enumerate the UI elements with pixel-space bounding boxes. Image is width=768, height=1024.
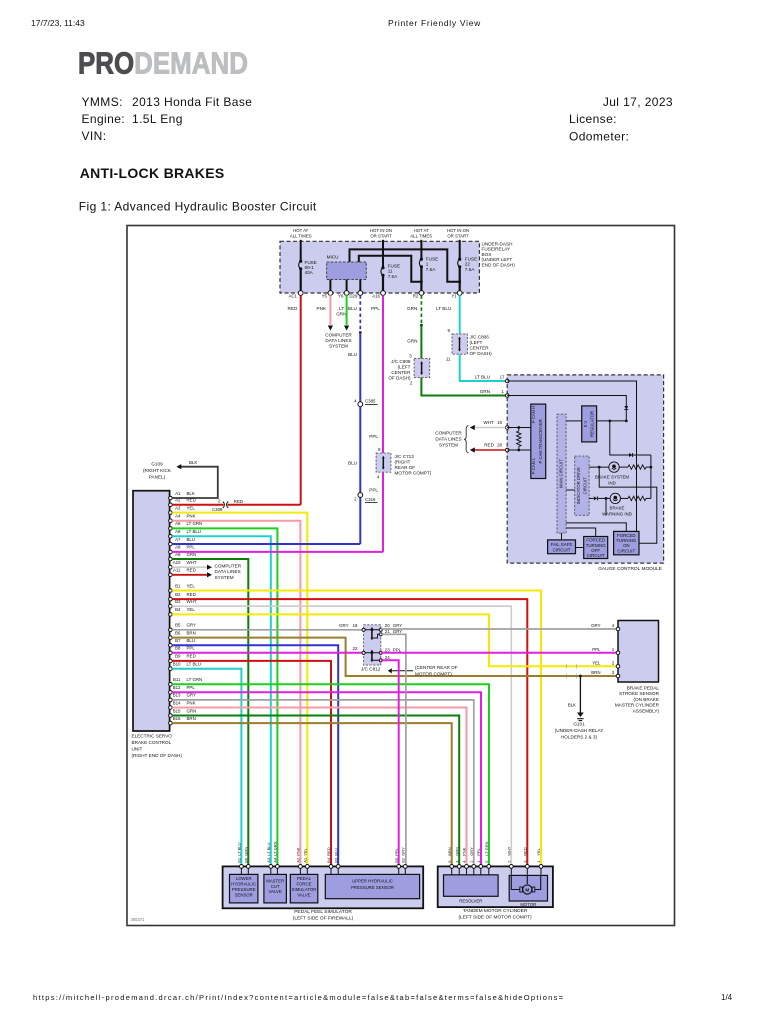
tandem motor cylinder pin 2 GRY xyxy=(469,847,476,875)
svg-text:A7: A7 xyxy=(175,537,181,542)
svg-text:C316: C316 xyxy=(365,497,376,502)
wire PPL B12 to resolver pin 1 xyxy=(172,692,481,866)
unit pin B9 RED xyxy=(169,654,196,663)
svg-text:(CENTER REAR OF: (CENTER REAR OF xyxy=(415,665,458,670)
svg-text:PRESSURE: PRESSURE xyxy=(232,887,256,892)
wire LT BLU from J/C C806 to gauge control module pin 17 xyxy=(460,354,508,381)
svg-text:RED: RED xyxy=(523,847,528,856)
svg-text:HYDRAULIC: HYDRAULIC xyxy=(231,882,256,887)
svg-text:YEL: YEL xyxy=(187,583,196,588)
svg-text:HOLDERS 2 & 3): HOLDERS 2 & 3) xyxy=(561,734,598,739)
svg-text:OR START: OR START xyxy=(447,233,469,238)
svg-text:B5: B5 xyxy=(175,623,181,628)
svg-text:UPPER HYDRAULIC: UPPER HYDRAULIC xyxy=(352,879,393,884)
junction connector J/C C806 xyxy=(446,328,492,362)
pedal force simulator valve block xyxy=(290,874,318,903)
svg-text:B5: B5 xyxy=(394,857,399,863)
gauge module pin 28 xyxy=(484,443,509,452)
unit pin B6 BRN xyxy=(169,630,196,639)
forced turning on circuit block xyxy=(614,531,639,554)
svg-text:FAIL SAFE: FAIL SAFE xyxy=(551,542,573,547)
svg-text:RED: RED xyxy=(187,654,196,659)
power feed HOT AT ALL TIMES (R2) xyxy=(410,228,432,258)
junction connector J/C C812 xyxy=(339,623,402,671)
svg-text:(RIGHT KICK: (RIGHT KICK xyxy=(143,468,172,473)
svg-text:BLU: BLU xyxy=(187,537,196,542)
svg-text:4: 4 xyxy=(354,399,357,404)
module internal wire pin17 to right bus xyxy=(507,381,636,531)
lower hydraulic pressure sensor block xyxy=(230,874,258,903)
svg-text:HOT IN ON: HOT IN ON xyxy=(370,228,392,233)
gauge module pin 19 xyxy=(483,420,509,429)
svg-text:1: 1 xyxy=(502,389,505,394)
svg-text:B14: B14 xyxy=(173,700,181,705)
svg-text:PPL: PPL xyxy=(187,646,196,651)
svg-text:MASTER: MASTER xyxy=(266,878,284,883)
wire WHT A10 to computer data lines arrow xyxy=(172,565,212,570)
svg-text:A16: A16 xyxy=(372,294,380,299)
wire PPL B8 to J/C C812 pin 22 xyxy=(172,652,363,654)
unit pin B12 PPL xyxy=(169,685,196,694)
svg-text:9: 9 xyxy=(448,328,451,333)
brake pedal stroke sensor box xyxy=(618,621,659,683)
svg-text:GRY: GRY xyxy=(393,623,403,628)
under-dash fuse/relay box xyxy=(280,241,479,293)
svg-text:INDICATOR DRIVE: INDICATOR DRIVE xyxy=(576,467,581,504)
svg-text:22: 22 xyxy=(353,646,358,651)
svg-text:SYSTEM: SYSTEM xyxy=(329,344,348,349)
svg-text:A1: A1 xyxy=(175,491,181,496)
junction connector J/C C713 xyxy=(376,447,432,480)
svg-text:BLU: BLU xyxy=(348,461,357,466)
svg-text:CENTER: CENTER xyxy=(470,346,490,351)
terminal Y5 xyxy=(322,291,333,299)
svg-text:7.5A: 7.5A xyxy=(426,267,436,272)
svg-text:B2: B2 xyxy=(401,857,406,863)
wire RED A2 with inline connector C306 xyxy=(172,499,301,513)
svg-text:1/4: 1/4 xyxy=(721,993,733,1002)
svg-text:23: 23 xyxy=(385,647,390,652)
wire GRY C812 pin 20 to stroke sensor pin 4 xyxy=(381,628,618,630)
wire PPL from A16 down to J/C C713 xyxy=(369,295,383,453)
svg-text:PPL: PPL xyxy=(592,647,601,652)
svg-text:PNK: PNK xyxy=(317,306,327,311)
wire GRN from splice to J/C C808 xyxy=(407,325,421,358)
svg-text:3: 3 xyxy=(409,354,412,359)
svg-text:LT GRN: LT GRN xyxy=(187,521,203,526)
svg-text:Y6: Y6 xyxy=(338,294,344,299)
svg-text:PNK: PNK xyxy=(187,700,196,705)
svg-text:CIRCUIT: CIRCUIT xyxy=(617,548,635,553)
wire BLU dashed from D29 xyxy=(348,295,362,334)
svg-text:28: 28 xyxy=(497,443,502,448)
svg-text:UNIT: UNIT xyxy=(132,747,143,752)
pedal feel simulator pin A1 YEL xyxy=(303,847,310,874)
svg-text:G101: G101 xyxy=(573,721,585,726)
pedal feel simulator pin A2 PNK xyxy=(296,847,303,874)
svg-text:ALL TIMES: ALL TIMES xyxy=(410,233,432,238)
wire LT BLU from Y1 down to J/C C806 xyxy=(436,295,460,334)
svg-text:WHT: WHT xyxy=(483,420,494,425)
gauge module pin 17 xyxy=(505,379,509,383)
svg-text:CIRCUIT: CIRCUIT xyxy=(587,553,605,558)
MICU output stubs to terminals Y5 Y6 D29 xyxy=(330,280,360,294)
svg-text:GRN: GRN xyxy=(454,847,459,856)
footer url xyxy=(33,993,564,1002)
ground G101 symbol xyxy=(577,713,584,721)
pedal feel simulator pin B4 RED xyxy=(326,847,333,874)
svg-text:B1: B1 xyxy=(175,583,181,588)
svg-text:VALVE: VALVE xyxy=(297,892,310,897)
svg-text:PEDAL: PEDAL xyxy=(297,876,312,881)
wire GRN A9 down to pedal feel simulator B6 xyxy=(172,559,248,866)
computer data lines system label (top) xyxy=(325,333,352,349)
unit pin A9 GRN xyxy=(169,552,197,561)
diagram id number xyxy=(131,917,146,922)
module internal wire pin1 with diode xyxy=(507,396,628,423)
master cut valve block xyxy=(264,874,287,903)
gauge control module box xyxy=(507,375,663,572)
unit pin B13 GRY xyxy=(169,693,196,702)
unit pin B15 GRN xyxy=(169,708,197,717)
svg-text:(RIGHT END OF DASH): (RIGHT END OF DASH) xyxy=(132,753,183,758)
wire PPL C812 pin 23 to stroke sensor pin 1 xyxy=(381,652,618,654)
svg-text:PPL: PPL xyxy=(394,847,399,855)
svg-text:GAUGE CONTROL MODULE: GAUGE CONTROL MODULE xyxy=(598,566,662,572)
svg-text:BRAKE SYSTEM: BRAKE SYSTEM xyxy=(595,474,630,479)
svg-text:PPL: PPL xyxy=(371,306,380,311)
unit pin B11 LT GRN xyxy=(169,677,203,686)
tandem motor cylinder pin 6 BRN xyxy=(447,847,454,875)
wire YEL B1 to motor pin 1 xyxy=(172,591,541,867)
fuse 11 7.5A xyxy=(381,264,400,294)
svg-text:BLK: BLK xyxy=(187,491,195,496)
label brake system ind xyxy=(595,474,630,485)
svg-text:GRY: GRY xyxy=(339,623,349,628)
svg-text:YMMS:: YMMS: xyxy=(82,95,123,109)
module wire from system ind junction to forced turning on circuit xyxy=(599,467,657,543)
label brake warning ind xyxy=(602,506,632,517)
svg-text:BLK: BLK xyxy=(568,703,576,708)
wire GRN from J/C C808 to gauge control module pin 1 xyxy=(421,378,507,396)
power feed HOT IN ON OR START (A16) xyxy=(370,228,392,267)
svg-text:LT BLU: LT BLU xyxy=(237,842,242,855)
svg-text:MAIN CIRCUIT: MAIN CIRCUIT xyxy=(558,459,563,488)
wire RED A11 to computer data lines arrow xyxy=(172,572,212,577)
svg-text:A6: A6 xyxy=(175,529,181,534)
ground G109 label xyxy=(143,461,172,479)
svg-text:A10: A10 xyxy=(173,560,181,565)
svg-text:YEL: YEL xyxy=(187,607,196,612)
svg-text:A4: A4 xyxy=(175,514,181,519)
wire BLU from splice to connector C385 xyxy=(348,333,360,403)
fuse 60-1 40A xyxy=(299,260,317,293)
svg-text:BLK: BLK xyxy=(189,460,197,465)
svg-text:RED: RED xyxy=(326,847,331,856)
svg-text:GRY: GRY xyxy=(187,623,197,628)
svg-text:17/7/23, 11:43: 17/7/23, 11:43 xyxy=(31,18,85,28)
svg-text:J/C C808: J/C C808 xyxy=(391,359,411,364)
module wire down to diode row xyxy=(610,421,651,457)
label pedal feel simulator xyxy=(293,909,354,921)
module wire main circuit to fail safe xyxy=(561,533,563,540)
svg-text:7.5A: 7.5A xyxy=(465,267,475,272)
svg-text:OF DASH): OF DASH) xyxy=(470,351,493,356)
svg-text:MOTOR COMPT): MOTOR COMPT) xyxy=(395,471,432,476)
indicator drive circuit block xyxy=(575,456,589,515)
svg-text:RED: RED xyxy=(187,592,196,597)
power feed HOT IN ON OR START (Y1) xyxy=(447,228,469,258)
unit pin A2 RED xyxy=(169,498,196,507)
fail safe circuit block xyxy=(548,540,576,554)
wire YEL B4 to brake pedal stroke sensor pin 2 xyxy=(172,614,618,666)
svg-text:GRY: GRY xyxy=(187,693,197,698)
svg-text:GRY: GRY xyxy=(469,847,474,856)
ProDemand logo xyxy=(78,45,248,79)
svg-text:WHT: WHT xyxy=(187,560,197,565)
pedal feel simulator box xyxy=(223,866,424,908)
fuse 1 7.5A xyxy=(419,257,438,294)
footer page number xyxy=(721,993,733,1002)
svg-text:Y5: Y5 xyxy=(322,294,328,299)
tandem motor cylinder pin 5 LT GRN xyxy=(484,841,491,874)
svg-text:PPL: PPL xyxy=(187,545,196,550)
svg-text:VALVE: VALVE xyxy=(269,889,282,894)
stroke sensor pin 2 YEL xyxy=(592,661,620,669)
svg-text:BRN: BRN xyxy=(187,630,196,635)
svg-text:B10: B10 xyxy=(173,662,181,667)
svg-text:BRAKE: BRAKE xyxy=(610,506,625,511)
pedal feel simulator pin B5 PPL xyxy=(394,847,401,874)
svg-text:LT GRN: LT GRN xyxy=(484,841,489,855)
unit pin B5 GRY xyxy=(169,623,196,632)
svg-text:SIMULATOR: SIMULATOR xyxy=(292,887,317,892)
svg-text:RESOLVER: RESOLVER xyxy=(459,898,482,903)
svg-text:J/C C812: J/C C812 xyxy=(361,666,381,671)
svg-text:P CAN H: P CAN H xyxy=(531,406,536,423)
wire GRY C812 pin 21 to pedal feel simulator B2 xyxy=(381,634,406,866)
svg-text:B9: B9 xyxy=(175,654,181,659)
svg-text:ASSEMBLY): ASSEMBLY) xyxy=(633,709,660,714)
svg-text:B1: B1 xyxy=(237,857,242,863)
svg-text:BLU: BLU xyxy=(348,352,357,357)
wire PPL A8 horizontal to riser xyxy=(172,551,383,553)
terminal A16 xyxy=(372,291,385,299)
svg-text:BLU: BLU xyxy=(187,638,196,643)
motor block xyxy=(509,875,547,906)
svg-text:IND: IND xyxy=(608,480,616,485)
svg-text:(LEFT SIDE OF FIREWALL): (LEFT SIDE OF FIREWALL) xyxy=(293,916,354,922)
diagram border frame xyxy=(127,226,675,926)
svg-text:License:: License: xyxy=(569,112,617,126)
svg-text:HOT AT: HOT AT xyxy=(414,228,429,233)
module wire main circuit to forced turning off xyxy=(566,528,596,537)
unit pin A5 LT GRN xyxy=(169,521,203,530)
wire GRN B15 to resolver pin 3 xyxy=(172,716,459,867)
svg-text:DATA LINES: DATA LINES xyxy=(215,569,241,574)
svg-text:CENTER: CENTER xyxy=(391,370,411,375)
svg-text:MASTER CYLINDER: MASTER CYLINDER xyxy=(615,703,660,708)
wire RED from AC1 down to A2 connector xyxy=(288,295,301,505)
svg-text:RED: RED xyxy=(187,568,196,573)
svg-text:24: 24 xyxy=(385,655,390,660)
svg-text:B3: B3 xyxy=(333,857,338,863)
svg-text:B2: B2 xyxy=(175,592,181,597)
tandem motor cylinder pin 3 GRN xyxy=(454,847,461,875)
svg-text:1.5L Eng: 1.5L Eng xyxy=(132,112,183,126)
svg-text:(UNDER-DASH RELAY: (UNDER-DASH RELAY xyxy=(555,728,604,733)
svg-text:2013 Honda Fit Base: 2013 Honda Fit Base xyxy=(132,95,252,109)
svg-text:5 V: 5 V xyxy=(583,421,588,428)
unit pin B14 PNK xyxy=(169,700,196,709)
svg-text:17: 17 xyxy=(500,375,505,380)
unit pin B4 YEL xyxy=(169,607,196,616)
unit pin A1 BLK xyxy=(169,491,195,500)
svg-text:COMPUTER: COMPUTER xyxy=(325,333,352,338)
svg-text:GRY: GRY xyxy=(591,623,601,628)
svg-text:Fig 1: Advanced Hydraulic Boos: Fig 1: Advanced Hydraulic Booster Circui… xyxy=(79,200,317,214)
wire BRN B6 to brake pedal stroke sensor pin 3 xyxy=(172,638,618,676)
svg-text:2: 2 xyxy=(612,661,615,666)
svg-text:PPL: PPL xyxy=(393,647,402,652)
svg-text:Engine:: Engine: xyxy=(82,112,126,126)
svg-text:WHT: WHT xyxy=(507,846,512,856)
unit pin B7 BLU xyxy=(169,638,195,647)
label center rear of motor compt with arrow xyxy=(388,665,458,677)
svg-text:M: M xyxy=(525,887,529,892)
svg-text:COMPUTER: COMPUTER xyxy=(435,430,462,435)
svg-text:4: 4 xyxy=(377,475,380,480)
svg-text:CIRCUIT: CIRCUIT xyxy=(553,547,571,552)
svg-text:YEL: YEL xyxy=(303,847,308,855)
svg-text:PRODEMAND: PRODEMAND xyxy=(78,45,248,79)
terminal R2 xyxy=(413,291,424,299)
svg-text:REAR OF: REAR OF xyxy=(395,465,416,470)
svg-text:3: 3 xyxy=(612,670,615,675)
svg-text:TANDEM MOTOR CYLINDER: TANDEM MOTOR CYLINDER xyxy=(463,908,528,914)
inline connector marks on YEL wire xyxy=(567,664,577,669)
svg-text:4: 4 xyxy=(612,623,615,628)
svg-text:Odometer:: Odometer: xyxy=(569,130,629,144)
svg-text:B12: B12 xyxy=(173,685,181,690)
tandem motor cylinder pin 1 PPL xyxy=(476,847,483,874)
wire PNK B14 to resolver pin 4 xyxy=(172,708,466,867)
svg-text:ELECTRIC SERVO: ELECTRIC SERVO xyxy=(132,734,173,739)
wire LT BLU A6 down to master cut valve A3 xyxy=(172,536,271,866)
svg-text:A5: A5 xyxy=(175,521,181,526)
svg-text:Jul 17, 2023: Jul 17, 2023 xyxy=(603,95,673,109)
module wire warning ind junction stub xyxy=(605,498,607,515)
svg-text:8: 8 xyxy=(378,447,381,452)
MICU internal bus wire to fuse 1 xyxy=(359,256,423,283)
svg-text:SENSOR: SENSOR xyxy=(235,892,253,897)
svg-text:COMPUTER: COMPUTER xyxy=(215,563,242,568)
unit pin B8 PPL xyxy=(169,646,196,655)
terminal Y6 xyxy=(338,291,349,299)
svg-text:(ON BRAKE: (ON BRAKE xyxy=(633,697,659,702)
svg-text:2: 2 xyxy=(354,496,357,501)
svg-text:BRN: BRN xyxy=(447,847,452,856)
connector C385 pin 4 xyxy=(354,399,377,407)
svg-text:40A: 40A xyxy=(305,270,314,275)
unit pin B16 BRN xyxy=(169,716,196,725)
svg-text:YEL: YEL xyxy=(187,505,196,510)
svg-text:A8: A8 xyxy=(175,545,181,550)
svg-text:B6: B6 xyxy=(244,857,249,863)
svg-text:B16: B16 xyxy=(173,716,181,721)
wire WHT B3 to motor pin 2 xyxy=(172,606,511,866)
unit pin B2 RED xyxy=(169,592,196,601)
terminal D29 xyxy=(349,291,362,299)
label tandem motor cylinder xyxy=(458,908,532,920)
P CAN transceiver block xyxy=(531,404,546,478)
fuse 22 7.5A xyxy=(458,257,478,294)
svg-text:Y1: Y1 xyxy=(451,294,457,299)
svg-text:(RIGHT: (RIGHT xyxy=(395,460,411,465)
svg-text:YEL: YEL xyxy=(536,847,541,855)
svg-text:GRN: GRN xyxy=(336,311,346,316)
svg-text:PPL: PPL xyxy=(369,434,378,439)
inline connector marks on BRN wire xyxy=(567,674,577,679)
svg-text:C385: C385 xyxy=(365,399,376,404)
svg-text:PNK: PNK xyxy=(187,514,196,519)
tandem motor cylinder pin 2 WHT xyxy=(507,846,514,875)
svg-text:11: 11 xyxy=(446,356,451,361)
svg-text:SYSTEM: SYSTEM xyxy=(439,442,458,447)
svg-text:C306: C306 xyxy=(212,507,223,512)
wire BRN B16 to resolver pin 6 xyxy=(172,723,452,866)
svg-text:365371: 365371 xyxy=(131,917,146,922)
label electric servo brake control unit xyxy=(132,734,183,759)
wire GRN dashed from R2 xyxy=(407,295,423,326)
svg-text:LT GRN: LT GRN xyxy=(187,677,203,682)
wire BLU A7 horizontal to riser xyxy=(172,543,360,545)
wire BLK A1 to ground G109 xyxy=(172,460,218,498)
svg-text:1: 1 xyxy=(612,647,615,652)
terminal AC1 xyxy=(288,291,303,299)
page header title xyxy=(388,18,481,28)
stroke sensor pin 4 GRY xyxy=(591,623,620,631)
svg-text:GRN: GRN xyxy=(187,708,197,713)
unit pin A7 BLU xyxy=(169,537,195,546)
svg-text:A2: A2 xyxy=(296,857,301,863)
svg-text:A1: A1 xyxy=(303,857,308,863)
5V regulator block xyxy=(582,406,597,442)
svg-text:Printer Friendly View: Printer Friendly View xyxy=(388,18,481,28)
unit pin A8 PPL xyxy=(169,545,196,554)
wire LT GRN from Y6 to computer data lines xyxy=(336,295,349,330)
svg-text:SYSTEM: SYSTEM xyxy=(215,575,234,580)
svg-text:OF DASH): OF DASH) xyxy=(388,376,411,381)
svg-text:PRESSURE SENSOR: PRESSURE SENSOR xyxy=(351,885,394,890)
svg-text:GRN: GRN xyxy=(244,847,249,856)
svg-text:(LEFT SIDE OF MOTOR COMPT): (LEFT SIDE OF MOTOR COMPT) xyxy=(458,915,532,921)
svg-text:B13: B13 xyxy=(173,693,181,698)
svg-text:P CAN TRANSCEIVER: P CAN TRANSCEIVER xyxy=(538,419,543,463)
svg-text:A4: A4 xyxy=(273,857,278,863)
svg-text:BLU: BLU xyxy=(348,306,357,311)
wire PNK A4 down to pedal feel simulator A2 xyxy=(172,521,300,867)
svg-text:GRY: GRY xyxy=(401,847,406,856)
svg-text:GRN: GRN xyxy=(407,339,417,344)
svg-text:RED: RED xyxy=(484,443,494,448)
svg-text:BRAKE PEDAL: BRAKE PEDAL xyxy=(627,685,660,690)
svg-text:A11: A11 xyxy=(173,568,181,573)
svg-text:BRN: BRN xyxy=(591,670,600,675)
pedal feel simulator pin B1 LT BLU xyxy=(237,842,244,874)
main circuit block xyxy=(557,414,566,533)
svg-text:A3: A3 xyxy=(175,505,181,510)
